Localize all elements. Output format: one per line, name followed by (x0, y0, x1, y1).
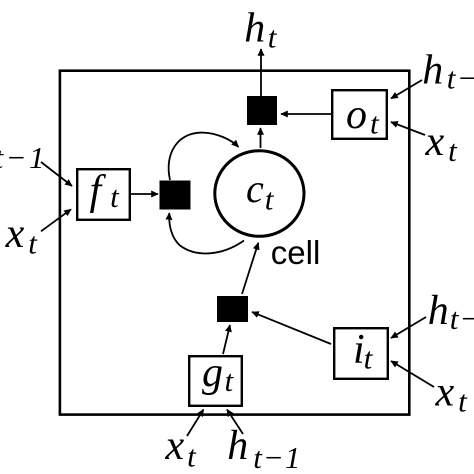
svg-text:ht−1: ht−1 (227, 423, 301, 474)
svg-text:ht−1: ht−1 (422, 48, 474, 96)
svg-text:cell: cell (271, 234, 321, 271)
svg-text:ht: ht (244, 6, 277, 55)
svg-text:ht−1: ht−1 (428, 288, 474, 336)
svg-text:xt: xt (435, 370, 469, 419)
svg-text:xt: xt (5, 211, 39, 260)
svg-text:xt: xt (425, 119, 459, 168)
svg-text:t−1: t−1 (0, 140, 47, 175)
svg-text:xt: xt (165, 423, 198, 474)
